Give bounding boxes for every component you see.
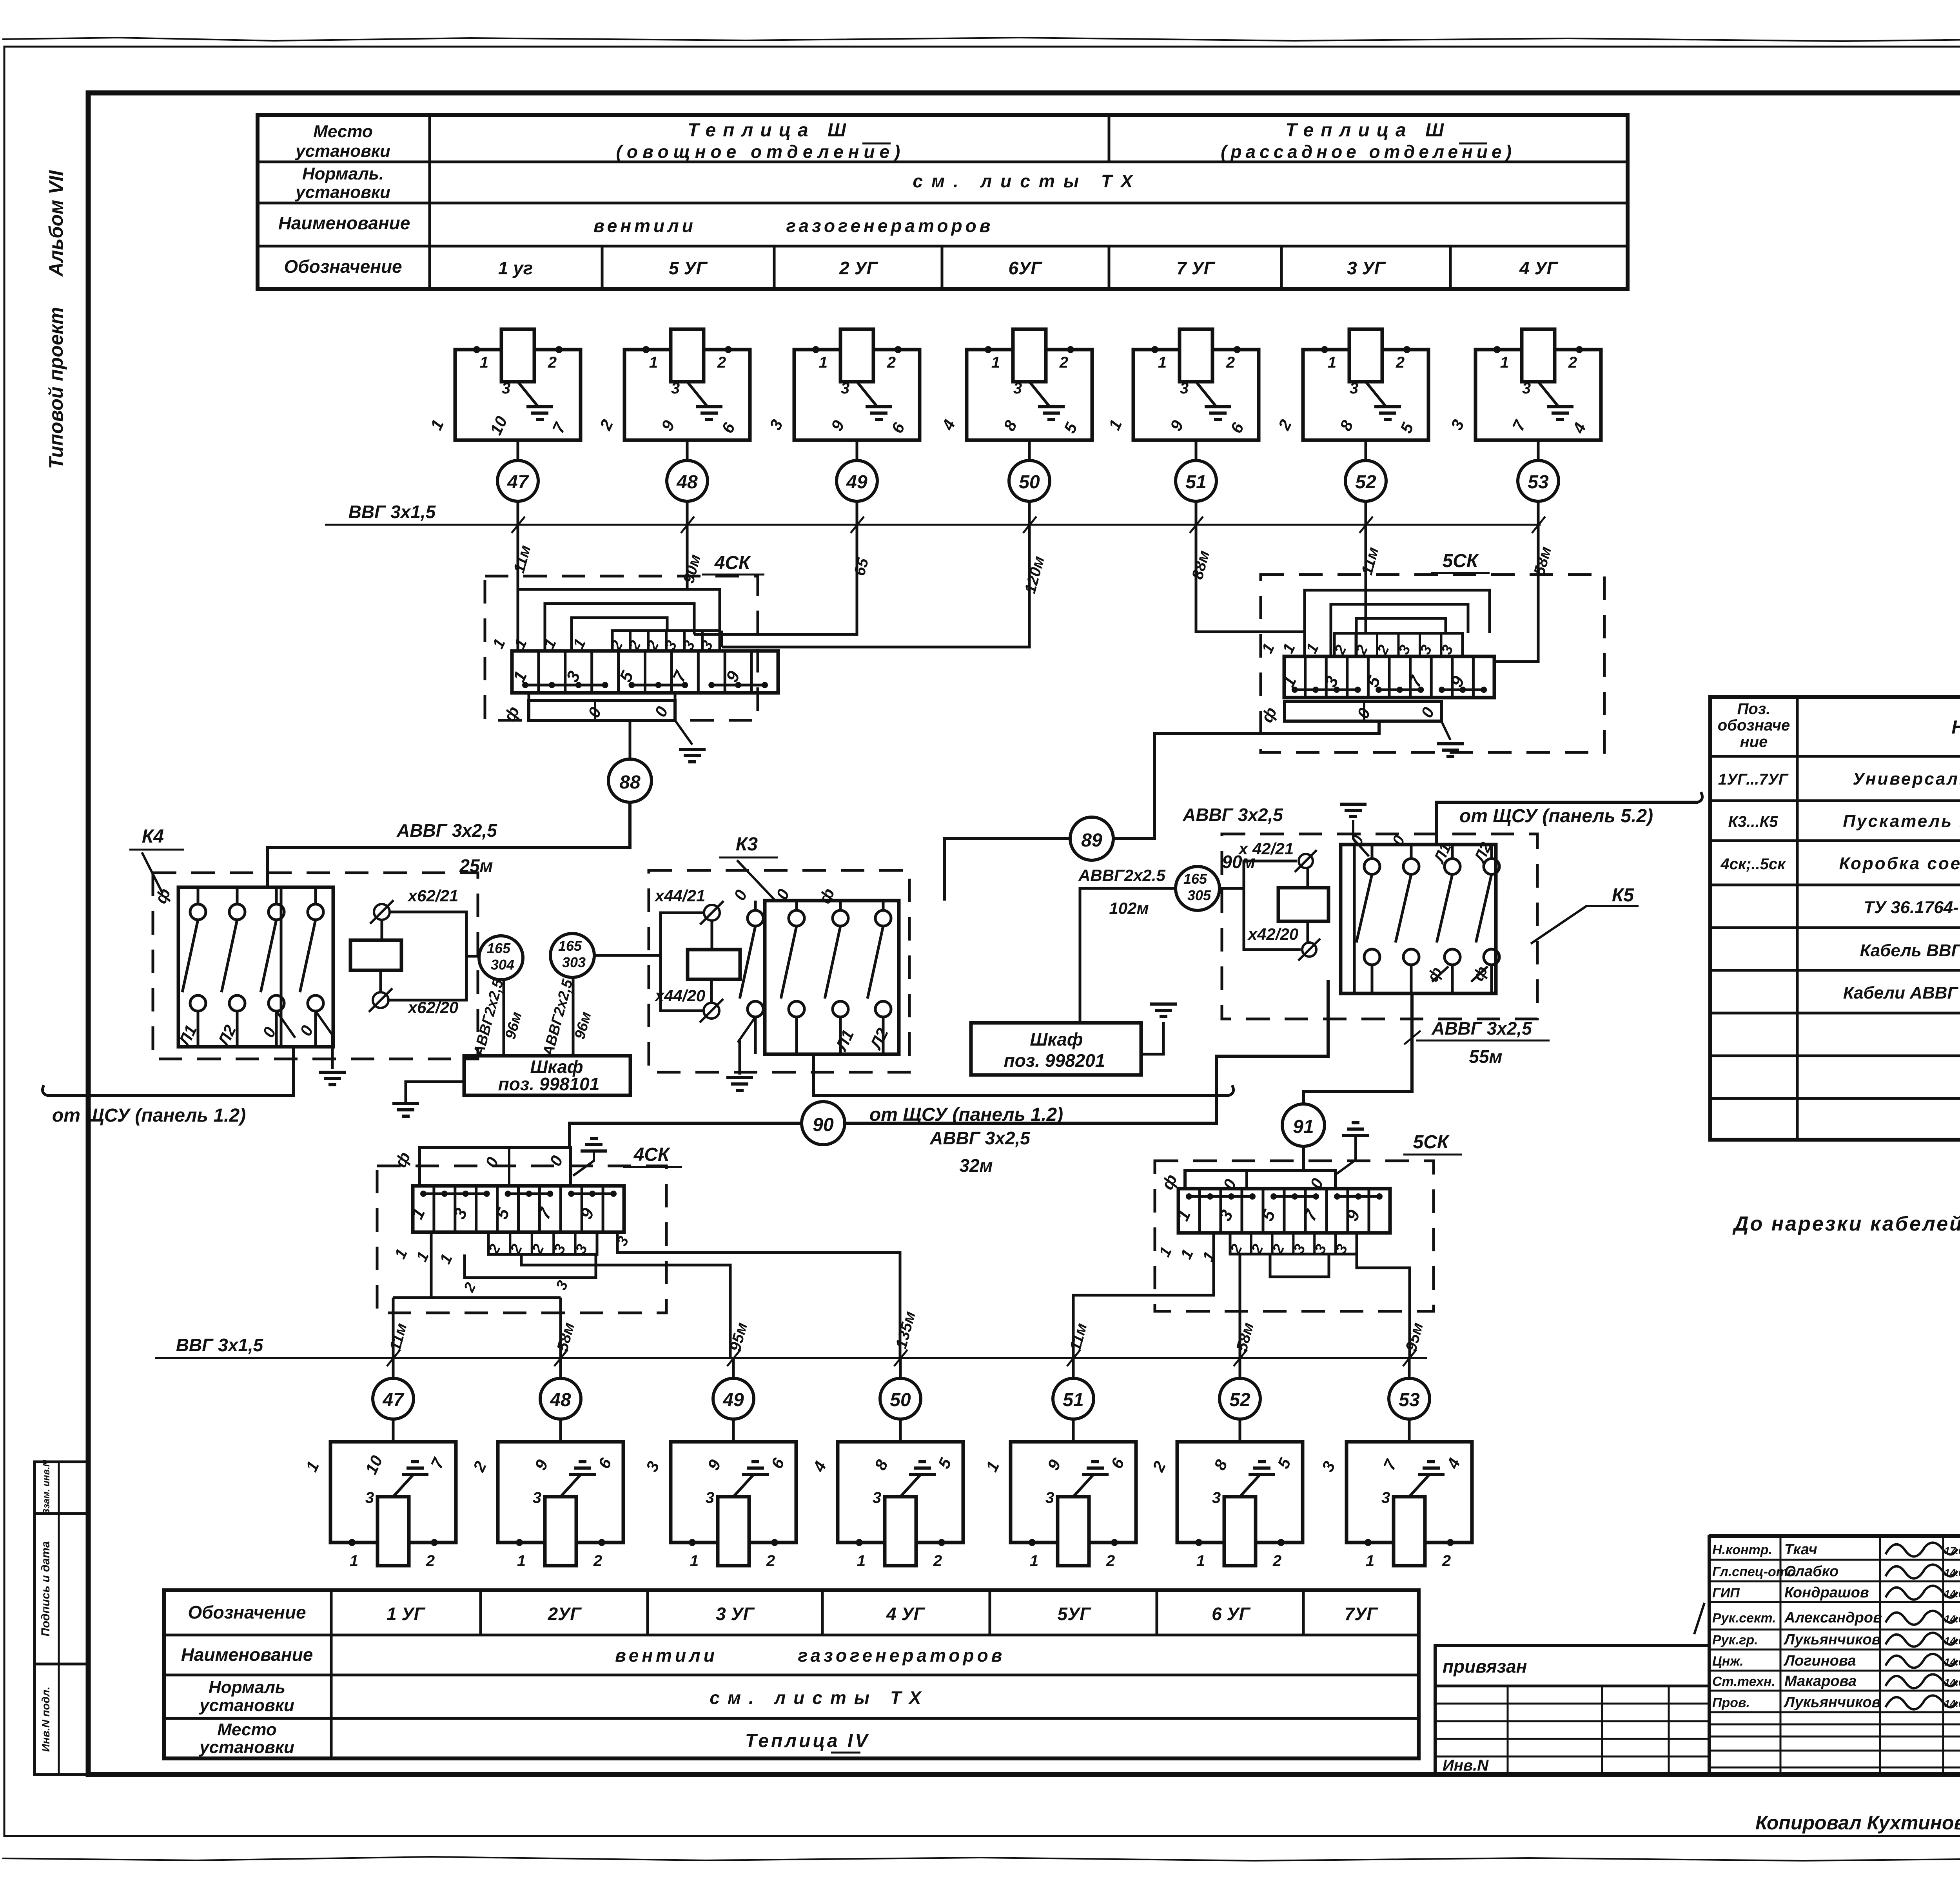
valve 5УГ	[671, 329, 704, 382]
ground 5УГ	[696, 405, 722, 408]
cable bus ВВГ 3x1,5 (Теплица III)	[325, 524, 1541, 526]
svg-text:Поз.: Поз.	[1737, 700, 1771, 718]
К3 ground	[739, 1039, 741, 1075]
svg-text:АВВГ 3х2,5: АВВГ 3х2,5	[1431, 1018, 1532, 1039]
svg-text:Место: Место	[313, 122, 373, 141]
wire generator 6УГ to marker	[1028, 440, 1031, 460]
svg-text:3 УГ: 3 УГ	[716, 1604, 755, 1624]
svg-text:1: 1	[1030, 1552, 1038, 1570]
cable marker 50 bottom	[880, 1378, 921, 1419]
valve 3УГ	[718, 1497, 749, 1566]
svg-text:14.01.86: 14.01.86	[1944, 1656, 1960, 1668]
svg-text:Кабели АВВГ ГОСТ 1508-78: Кабели АВВГ ГОСТ 1508-78	[1843, 983, 1960, 1002]
svg-text:2: 2	[717, 354, 726, 371]
4СК bottom phi-zero row	[419, 1147, 570, 1186]
svg-text:(овощное отделение): (овощное отделение)	[616, 141, 905, 162]
svg-text:от ЩСУ (панель 1.2): от ЩСУ (панель 1.2)	[52, 1105, 246, 1126]
5СК output wire to cable 89	[1114, 721, 1379, 839]
svg-text:Ст.техн.: Ст.техн.	[1712, 1674, 1775, 1689]
svg-text:Кондрашов: Кондрашов	[1784, 1584, 1869, 1601]
svg-text:2: 2	[548, 354, 557, 371]
gas generator 6УГ	[1177, 1442, 1303, 1543]
svg-text:1: 1	[1500, 354, 1509, 371]
cable marker 91	[1282, 1104, 1325, 1146]
magnetic starter К5 dashed outline	[1222, 834, 1537, 1019]
svg-text:х 42/21: х 42/21	[1238, 839, 1294, 858]
svg-text:4ск;..5ск: 4ск;..5ск	[1720, 856, 1786, 873]
cable marker 52 bottom	[1220, 1378, 1260, 1419]
upper table column split Теплица III	[1108, 115, 1111, 162]
bus tick	[512, 517, 525, 533]
svg-text:50: 50	[1019, 472, 1040, 493]
К3 coil wiring	[661, 913, 703, 1011]
gas generator 3УГ	[1303, 350, 1428, 440]
pin dots 6УГ	[1195, 1539, 1202, 1546]
wire generator 5УГ to marker	[686, 440, 689, 460]
К5 top ground	[1340, 803, 1367, 806]
svg-text:14.01.86: 14.01.86	[1944, 1588, 1960, 1600]
svg-text:АВВГ2х2.5: АВВГ2х2.5	[1078, 866, 1166, 885]
wire 51 entry	[1298, 631, 1305, 633]
svg-text:3: 3	[1350, 380, 1358, 397]
materials list table	[1710, 697, 1960, 1140]
svg-text:53: 53	[1528, 472, 1549, 493]
svg-text:14.01.86: 14.01.86	[1944, 1613, 1960, 1625]
junction box 5СК (bottom) dashed outline	[1155, 1161, 1434, 1311]
wire 53 entry	[1493, 656, 1496, 662]
wire marker to bus	[686, 501, 689, 525]
ground 6УГ	[1258, 1460, 1266, 1463]
bus tick 135м	[894, 1350, 907, 1366]
svg-text:Макарова: Макарова	[1784, 1673, 1857, 1689]
svg-text:Пров.: Пров.	[1712, 1695, 1750, 1710]
valve 6УГ	[1013, 329, 1046, 382]
К5 enclosure	[1341, 845, 1496, 993]
svg-text:5 УГ: 5 УГ	[669, 258, 708, 278]
valve 2УГ	[545, 1497, 576, 1566]
wire strip to phi row	[629, 720, 632, 759]
wire marker to generator	[1408, 1419, 1411, 1442]
svg-text:вентили: вентили	[615, 1645, 718, 1666]
wire generator 3УГ to marker	[1365, 440, 1367, 460]
svg-text:(рассадное отделение): (рассадное отделение)	[1221, 141, 1515, 162]
svg-text:2: 2	[1272, 1552, 1281, 1570]
К4 coil terminal x62/20	[373, 992, 388, 1008]
svg-text:Цнж.: Цнж.	[1712, 1654, 1744, 1669]
ground 2УГ	[579, 1460, 586, 1463]
5СК bottom phi-zero row	[1185, 1171, 1336, 1189]
wire marker to generator	[1072, 1419, 1075, 1442]
5СК bottom terminal strip	[1178, 1189, 1390, 1233]
wire marker to bus	[1537, 501, 1540, 525]
svg-text:Логинова: Логинова	[1783, 1653, 1856, 1669]
paper torn edge bottom	[2, 1857, 1960, 1861]
svg-text:Лукьянчиков: Лукьянчиков	[1783, 1694, 1881, 1711]
svg-text:52: 52	[1355, 472, 1376, 493]
svg-text:поз. 998201: поз. 998201	[1004, 1050, 1105, 1071]
svg-text:55м: 55м	[1469, 1046, 1502, 1067]
К5 output cable АВВГ 3х2,5 55м	[1303, 993, 1412, 1104]
cable marker 165/305	[1176, 866, 1220, 910]
svg-text:4СК: 4СК	[633, 1144, 671, 1165]
wire bus to marker	[559, 1358, 562, 1378]
svg-text:К3...К5: К3...К5	[1728, 813, 1778, 830]
wire generator 7УГ to marker	[1195, 440, 1198, 460]
wire marker to generator	[732, 1419, 735, 1442]
ground 1УГ	[411, 1460, 419, 1463]
svg-text:51: 51	[1185, 472, 1206, 493]
cable marker 52	[1345, 460, 1386, 501]
cable marker 50	[1009, 460, 1050, 501]
valve 1УГ	[501, 329, 534, 382]
cable bus ВВГ 3х1,5 (Теплица IV)	[155, 1357, 1427, 1359]
svg-text:Теплица IV: Теплица IV	[745, 1731, 870, 1751]
svg-text:установки: установки	[199, 1738, 294, 1757]
wire marker to generator	[1239, 1419, 1241, 1442]
slash mark	[1694, 1603, 1704, 1634]
svg-text:Подпись и дата: Подпись и дата	[39, 1541, 52, 1636]
svg-text:3: 3	[502, 380, 510, 397]
svg-text:установки: установки	[199, 1696, 294, 1715]
svg-text:7 УГ: 7 УГ	[1176, 258, 1216, 278]
svg-text:Пускатель магнитный: Пускатель магнитный	[1843, 812, 1960, 831]
svg-text:Теплица Ш: Теплица Ш	[688, 120, 853, 141]
svg-text:см. листы ТХ: см. листы ТХ	[710, 1688, 929, 1708]
gas generator 7УГ	[1347, 1442, 1472, 1543]
privyazan table	[1435, 1646, 1709, 1775]
gas generator 2УГ	[794, 350, 920, 440]
svg-text:1: 1	[819, 354, 828, 371]
svg-text:47: 47	[382, 1390, 405, 1410]
svg-text:3: 3	[1212, 1489, 1221, 1506]
gas generator 6УГ	[967, 350, 1092, 440]
svg-text:1: 1	[649, 354, 658, 371]
cable marker 47 bottom	[373, 1378, 414, 1419]
К3 coil terminal x44/20	[704, 1003, 719, 1019]
svg-text:3: 3	[1013, 380, 1022, 397]
paper torn edge top	[2, 38, 1960, 41]
wire 53 feeder	[1357, 1246, 1410, 1358]
svg-text:1УГ...7УГ: 1УГ...7УГ	[1718, 771, 1789, 788]
К4 coil terminal x62/21	[374, 904, 390, 920]
svg-text:К3: К3	[736, 834, 758, 855]
svg-text:14.01.86: 14.01.86	[1944, 1567, 1960, 1579]
gas generator 5УГ	[1011, 1442, 1136, 1543]
pin dots 7УГ	[1151, 346, 1158, 353]
valve 3УГ	[1349, 329, 1382, 382]
svg-text:Копировал Кухтинова: Копировал Кухтинова	[1755, 1812, 1960, 1834]
wire 47 drop	[517, 525, 519, 589]
cable marker 51	[1176, 460, 1216, 501]
wire marker 303 to К3	[594, 954, 661, 957]
svg-text:3: 3	[1180, 380, 1189, 397]
ground 1УГ	[526, 405, 553, 408]
lower location table	[164, 1590, 1419, 1758]
4СК ground	[675, 720, 692, 745]
svg-text:2УГ: 2УГ	[548, 1604, 582, 1624]
valve 5УГ	[1058, 1497, 1089, 1566]
5СК bottom ground	[1352, 1121, 1359, 1124]
svg-text:Универсальный генератор СО2: Универсальный генератор СО2	[1853, 769, 1960, 788]
К5 contacts	[1371, 845, 1374, 859]
svg-text:Рук.сект.: Рук.сект.	[1712, 1611, 1776, 1626]
ground 3УГ	[1374, 405, 1401, 408]
wire bus to marker	[1239, 1358, 1241, 1378]
svg-text:17.01.86: 17.01.86	[1944, 1545, 1960, 1557]
svg-text:Взам. инв.N: Взам. инв.N	[41, 1460, 52, 1515]
svg-text:1: 1	[517, 1552, 526, 1570]
wire marker to generator	[899, 1419, 902, 1442]
svg-text:2: 2	[593, 1552, 602, 1570]
pin dots 1УГ	[348, 1539, 356, 1546]
cable marker 165/303	[550, 933, 594, 977]
svg-text:1: 1	[350, 1552, 358, 1570]
svg-text:3 УГ: 3 УГ	[1347, 258, 1386, 278]
upper location table	[258, 115, 1628, 289]
svg-text:2: 2	[1059, 354, 1068, 371]
wire marker to generator	[559, 1419, 562, 1442]
svg-text:Типовой проект: Типовой проект	[45, 307, 67, 469]
wire marker to bus	[517, 501, 519, 525]
cable 88 to К4, АВВГ 3х2,5 25м	[268, 802, 630, 887]
wire 51 drop	[1196, 525, 1298, 632]
svg-text:3: 3	[671, 380, 680, 397]
wire marker to bus	[1365, 501, 1367, 525]
svg-text:ние: ние	[1740, 733, 1768, 750]
ground 4УГ	[1547, 405, 1573, 408]
upper table designation columns	[601, 246, 604, 289]
svg-text:газогенераторов: газогенераторов	[798, 1645, 1005, 1666]
bus tick	[681, 517, 694, 533]
svg-text:АВВГ 3х2,5: АВВГ 3х2,5	[1182, 805, 1283, 825]
svg-text:1: 1	[1158, 354, 1167, 371]
svg-text:Теплица Ш: Теплица Ш	[1285, 120, 1451, 141]
К4 coil	[350, 940, 401, 970]
К4 ground	[331, 1035, 334, 1069]
svg-text:1: 1	[1328, 354, 1336, 371]
cabinet 998101 ground wire	[406, 1082, 464, 1102]
junction box 4СК (top) dashed outline	[485, 576, 758, 720]
wire К4 coil to marker 304	[466, 955, 479, 958]
gas generator 4УГ	[1475, 350, 1601, 440]
К5 coil terminal x42/21	[1299, 854, 1313, 868]
svg-text:от ЩСУ (панель 5.2): от ЩСУ (панель 5.2)	[1459, 806, 1653, 827]
К5 leader line	[1531, 906, 1586, 944]
junction box 4СК (bottom) dashed outline	[377, 1166, 666, 1313]
svg-text:14.01.86: 14.01.86	[1944, 1698, 1960, 1709]
wire 50 feeder	[617, 1232, 900, 1358]
svg-text:2: 2	[887, 354, 896, 371]
pin dots 5УГ	[642, 346, 650, 353]
bus tick 11м	[387, 1350, 400, 1366]
ground 3УГ	[751, 1460, 759, 1463]
svg-text:53: 53	[1399, 1390, 1420, 1410]
wire 49 drop	[694, 525, 857, 634]
ground 4УГ	[918, 1460, 926, 1463]
5СК ground	[1441, 721, 1450, 740]
wire 51 feeder	[1073, 1295, 1183, 1358]
svg-text:91: 91	[1293, 1117, 1314, 1137]
К3 outgoing wire от ЩСУ (панель 1.2)	[813, 1054, 1229, 1095]
ground 7УГ	[1205, 405, 1231, 408]
bus tick 11м	[1067, 1350, 1080, 1366]
svg-text:50: 50	[890, 1390, 911, 1410]
gas generator 3УГ	[671, 1442, 796, 1543]
svg-text:47: 47	[507, 472, 529, 493]
svg-text:К4: К4	[142, 826, 164, 847]
svg-text:32м: 32м	[959, 1155, 993, 1176]
svg-text:АВВГ 3х2,5: АВВГ 3х2,5	[929, 1128, 1031, 1148]
gas generator 5УГ	[624, 350, 750, 440]
cable marker 165/304	[479, 936, 523, 980]
wire 49 entry	[693, 631, 696, 634]
gas generator 1УГ	[455, 350, 581, 440]
svg-text:АВВГ 3х2,5: АВВГ 3х2,5	[396, 820, 497, 841]
valve 7УГ	[1180, 329, 1212, 382]
К4 enclosure	[178, 887, 333, 1047]
cable АВВГ2х2.5 102м to cabinet	[1080, 888, 1176, 1023]
svg-text:2: 2	[1226, 354, 1235, 371]
svg-text:установки: установки	[295, 183, 390, 202]
bus tick	[851, 517, 864, 533]
svg-text:165: 165	[487, 940, 511, 956]
wire generator 4УГ to marker	[1537, 440, 1540, 460]
svg-text:Наименование: Наименование	[278, 213, 410, 233]
svg-text:3: 3	[533, 1489, 541, 1506]
К3 coil terminal x44/21	[704, 905, 720, 921]
К3 contacts	[754, 901, 757, 910]
gas generator 2УГ	[498, 1442, 623, 1543]
wire 48 drop	[686, 525, 689, 589]
svg-text:165: 165	[1183, 871, 1207, 887]
cable marker 49	[837, 460, 877, 501]
bus tick	[1359, 517, 1373, 533]
К4 leader line	[142, 852, 163, 894]
pin dots 1УГ	[473, 346, 480, 353]
svg-text:305: 305	[1187, 887, 1211, 903]
cabinet 998201 ground	[1141, 1022, 1163, 1054]
pin dots 7УГ	[1365, 1539, 1372, 1546]
svg-text:49: 49	[722, 1390, 744, 1410]
svg-text:установки: установки	[295, 141, 390, 161]
svg-text:см. листы ТХ: см. листы ТХ	[913, 171, 1141, 191]
wire marker to bus	[856, 501, 858, 525]
svg-text:Инв.N подл.: Инв.N подл.	[40, 1687, 52, 1752]
4СК phi-zero row	[529, 701, 675, 720]
pin dots 6УГ	[985, 346, 992, 353]
К5 coil wiring	[1244, 861, 1301, 950]
5СК phi-zero row	[1285, 701, 1441, 721]
4СК terminal strip	[512, 651, 778, 693]
svg-text:3: 3	[1381, 1489, 1390, 1506]
cable marker 51 bottom	[1053, 1378, 1094, 1419]
svg-text:88: 88	[619, 772, 641, 793]
svg-text:ВВГ 3х1,5: ВВГ 3х1,5	[348, 502, 436, 522]
left stamp column	[34, 1462, 88, 1775]
svg-text:3: 3	[706, 1489, 714, 1506]
svg-text:ГИП: ГИП	[1712, 1586, 1740, 1601]
cable marker 48	[667, 460, 708, 501]
cable АВВГ2х2,5 96м (304)	[503, 980, 505, 1056]
cable marker 48 bottom	[540, 1378, 581, 1419]
svg-text:1: 1	[1196, 1552, 1205, 1570]
wire bus to marker	[1072, 1358, 1075, 1378]
wire marker to generator	[392, 1419, 395, 1442]
pin dots 2УГ	[812, 346, 819, 353]
cable marker 53 bottom	[1389, 1378, 1430, 1419]
svg-text:2 УГ: 2 УГ	[839, 258, 878, 278]
svg-text:3: 3	[873, 1489, 881, 1506]
gas generator 7УГ	[1133, 350, 1259, 440]
svg-text:привязан: привязан	[1443, 1656, 1527, 1677]
svg-text:52: 52	[1229, 1390, 1250, 1410]
signature table	[1709, 1536, 1960, 1775]
svg-text:102м: 102м	[1109, 899, 1149, 917]
5СК terminal strip	[1284, 656, 1494, 698]
svg-text:Ткач: Ткач	[1784, 1541, 1817, 1558]
svg-text:Наименование: Наименование	[1951, 717, 1960, 738]
wire 49 feeder	[521, 1254, 730, 1358]
valve 7УГ	[1394, 1497, 1425, 1566]
gas generator 1УГ	[330, 1442, 456, 1543]
svg-text:4СК: 4СК	[714, 553, 751, 573]
wire marker to bus	[1195, 501, 1198, 525]
4СК bottom pair cells	[488, 1232, 597, 1254]
svg-text:х62/21: х62/21	[407, 886, 458, 905]
title block top border	[1709, 1534, 1960, 1538]
svg-text:Шкаф: Шкаф	[1030, 1029, 1083, 1050]
5СК bottom pair cells	[1230, 1233, 1357, 1254]
svg-text:3: 3	[841, 380, 849, 397]
4СК nested jumpers	[518, 589, 720, 651]
bus tick 58м	[1234, 1350, 1247, 1366]
svg-text:вентили: вентили	[593, 216, 696, 236]
К3 enclosure	[765, 901, 899, 1054]
svg-text:Обозначение: Обозначение	[188, 1602, 306, 1622]
bus tick	[1532, 517, 1545, 533]
cable 90 run АВВГ 3х2,5 32м	[570, 1123, 802, 1147]
svg-text:2: 2	[933, 1552, 942, 1570]
cable marker 90	[802, 1102, 845, 1145]
cable marker 47	[497, 460, 538, 501]
svg-text:Слабко: Слабко	[1784, 1563, 1838, 1580]
ground 2УГ	[866, 405, 892, 408]
svg-text:Наименование: Наименование	[181, 1644, 313, 1665]
svg-text:Кабель ВВГ 3х1,5-0,66 ГОСТ 164: Кабель ВВГ 3х1,5-0,66 ГОСТ 16442-80	[1860, 941, 1960, 960]
svg-text:5УГ: 5УГ	[1058, 1604, 1092, 1624]
5СК bottom nest and feeders	[1183, 1233, 1214, 1295]
wire generator 1УГ to marker	[517, 440, 519, 460]
svg-text:1 уг: 1 уг	[498, 258, 533, 278]
svg-text:Нормаль: Нормаль	[209, 1678, 285, 1697]
wire 50 drop	[722, 525, 1029, 647]
wire от ЩСУ (панель 5.2)	[1436, 802, 1698, 845]
cable 89 to К3, АВВГ 3х2,5 90м	[945, 839, 1070, 901]
К4 coil wiring	[381, 921, 383, 940]
4СК pair-number cells	[612, 631, 720, 651]
svg-text:5СК: 5СК	[1443, 551, 1479, 571]
К3 coil	[688, 950, 740, 979]
svg-text:Коробка соединительная КС-10: Коробка соединительная КС-10	[1839, 854, 1960, 873]
svg-text:51: 51	[1063, 1390, 1083, 1410]
svg-text:49: 49	[846, 472, 867, 493]
cable marker 53	[1518, 460, 1559, 501]
svg-text:3: 3	[1522, 380, 1531, 397]
5СК nested jumpers	[1305, 590, 1490, 656]
valve 6УГ	[1224, 1497, 1256, 1566]
svg-text:Обозначение: Обозначение	[284, 256, 402, 277]
svg-text:4 УГ: 4 УГ	[886, 1604, 926, 1624]
